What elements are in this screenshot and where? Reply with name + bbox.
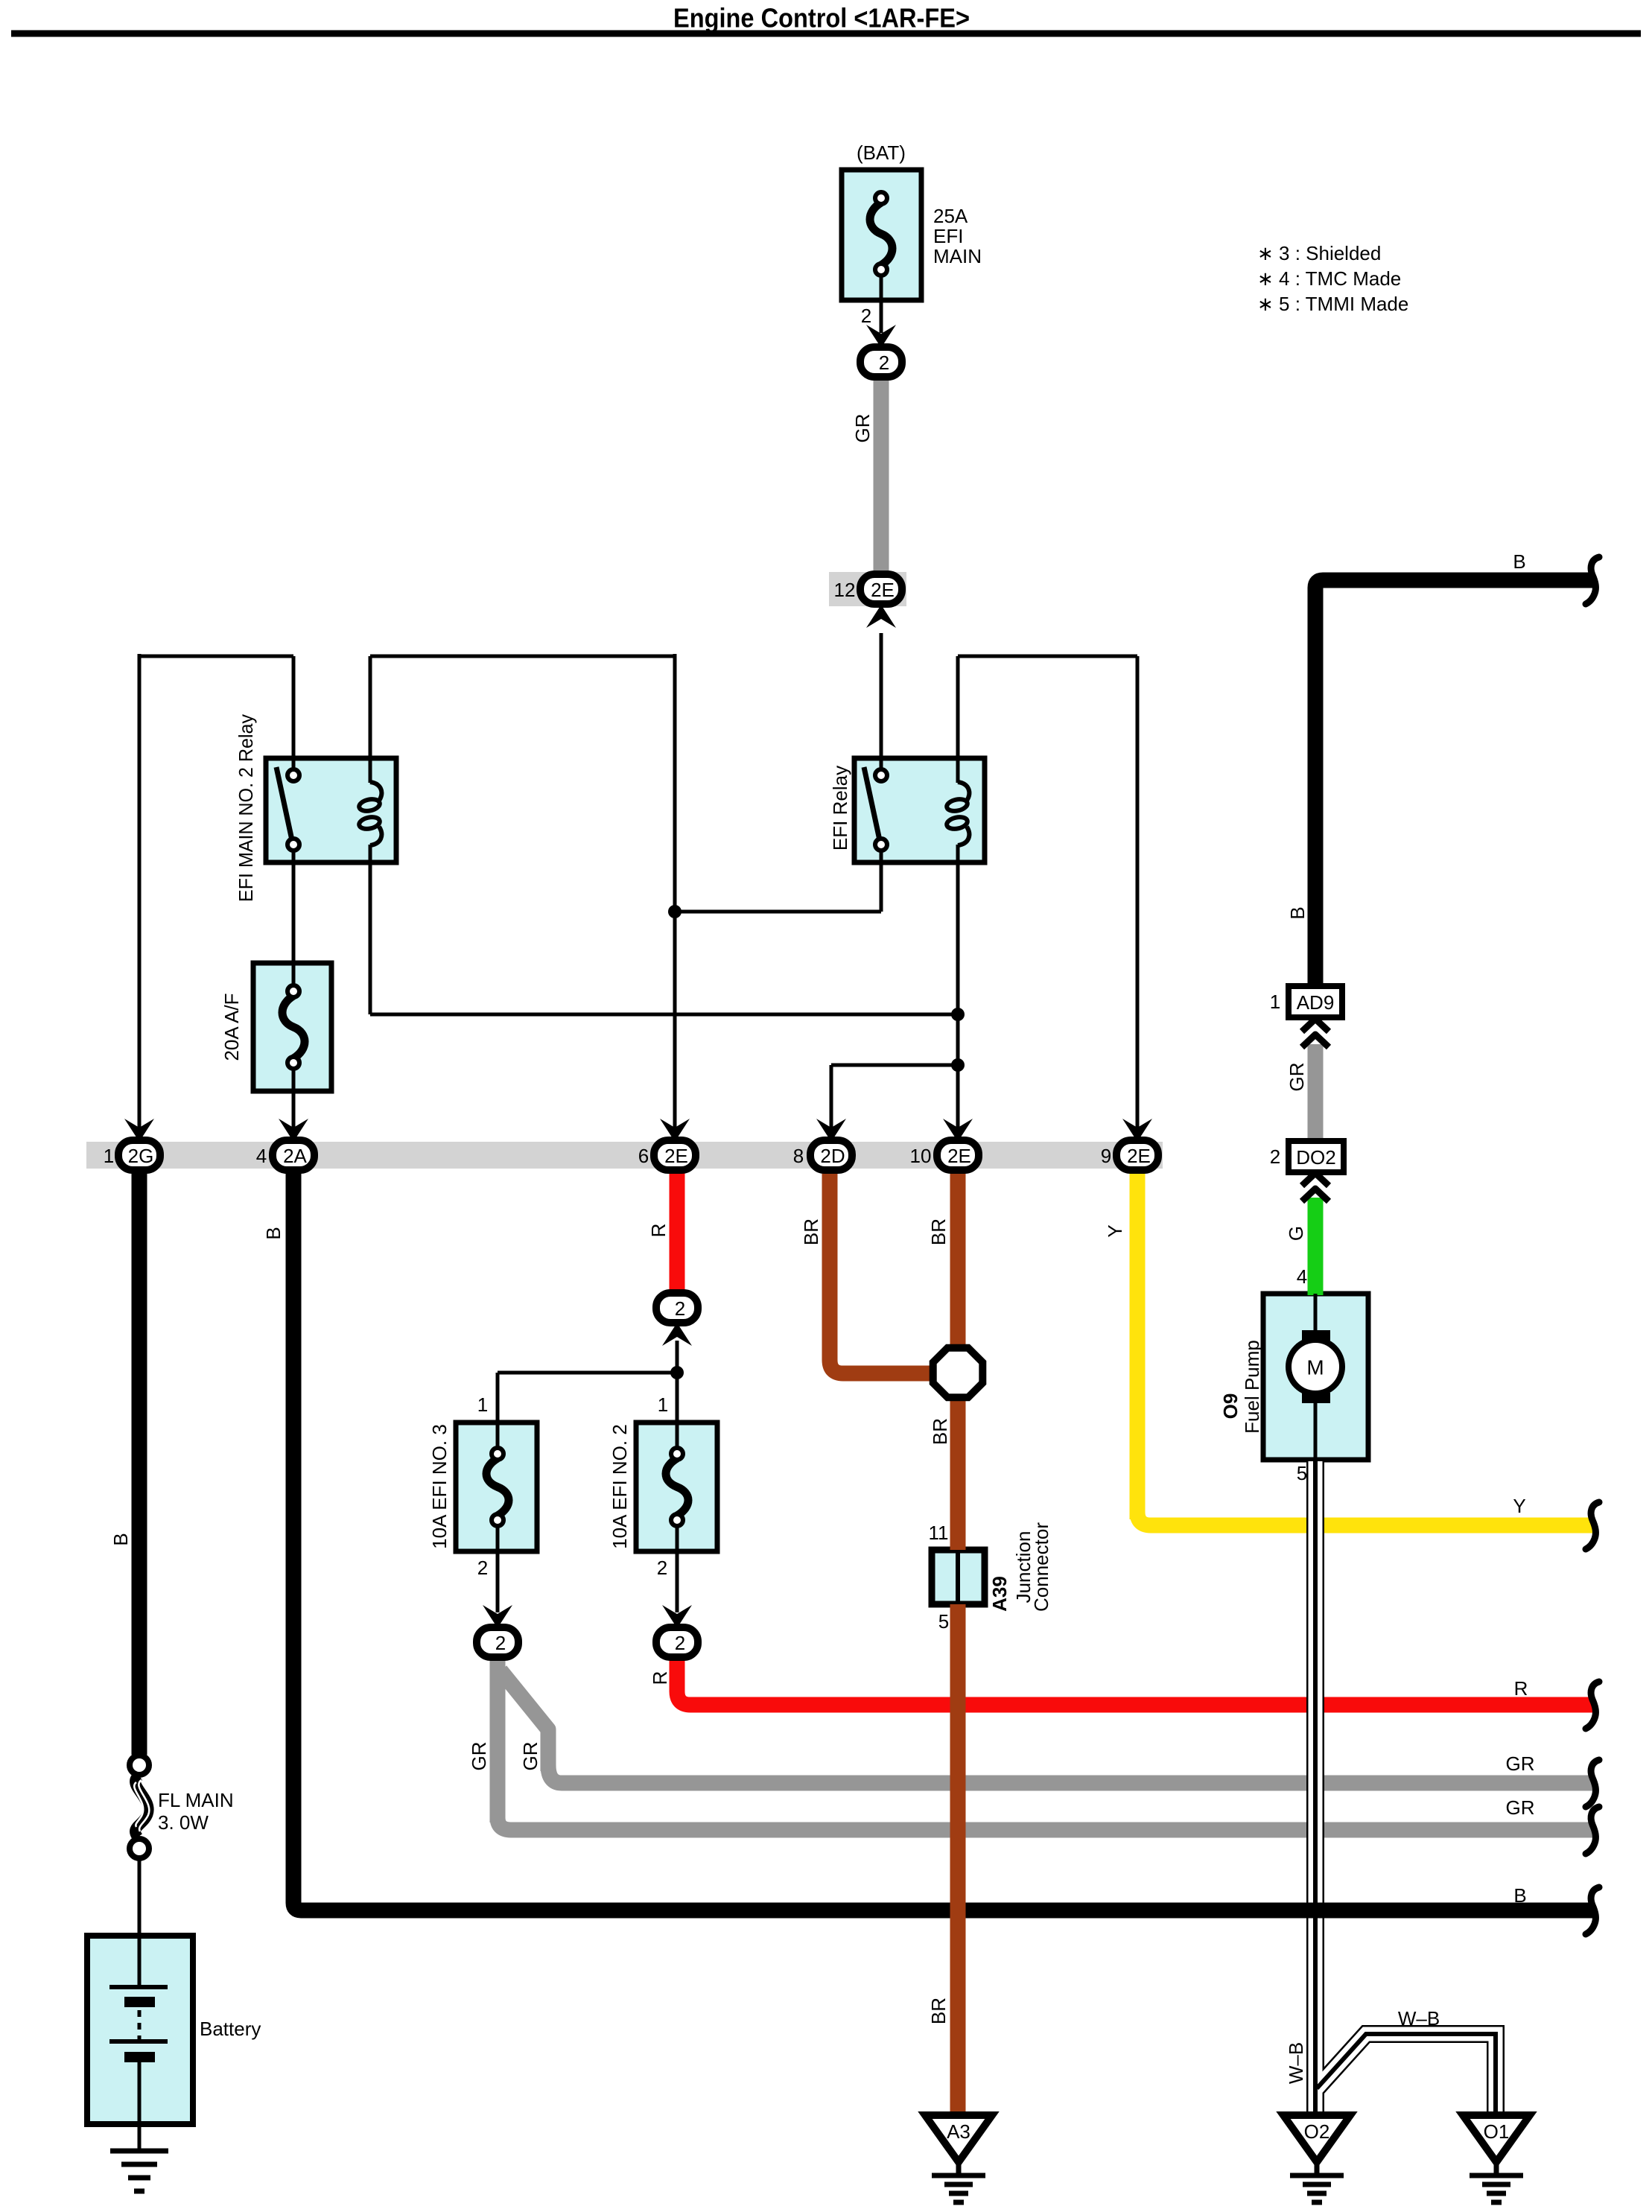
svg-text:1: 1: [1270, 991, 1280, 1013]
svg-text:GR: GR: [1506, 1796, 1535, 1819]
svg-text:GR: GR: [519, 1742, 541, 1771]
svg-text:2: 2: [495, 1632, 506, 1654]
svg-text:2: 2: [675, 1297, 685, 1320]
svg-text:R: R: [647, 1224, 670, 1238]
svg-text:1: 1: [477, 1393, 488, 1416]
svg-text:O2: O2: [1304, 2120, 1330, 2143]
svg-text:25A: 25A: [933, 205, 968, 227]
svg-text:GR: GR: [1286, 1063, 1308, 1092]
svg-text:2G: 2G: [128, 1145, 154, 1167]
svg-text:4: 4: [256, 1145, 267, 1167]
svg-text:10A EFI NO. 2: 10A EFI NO. 2: [609, 1424, 631, 1549]
svg-text:B: B: [1513, 1884, 1526, 1907]
svg-text:2: 2: [657, 1557, 667, 1579]
svg-text:R: R: [649, 1671, 671, 1685]
svg-text:20A A/F: 20A A/F: [220, 993, 243, 1061]
svg-text:B: B: [1513, 550, 1525, 573]
svg-text:10A EFI NO. 3: 10A EFI NO. 3: [428, 1424, 451, 1549]
svg-text:O9: O9: [1219, 1393, 1242, 1420]
svg-text:B: B: [109, 1533, 132, 1545]
svg-text:EFI MAIN NO. 2 Relay: EFI MAIN NO. 2 Relay: [235, 714, 257, 902]
svg-text:M: M: [1306, 1356, 1324, 1379]
svg-text:W–B: W–B: [1398, 2007, 1440, 2030]
svg-text:2: 2: [675, 1632, 685, 1654]
svg-text:2E: 2E: [871, 579, 895, 601]
svg-text:10: 10: [910, 1145, 932, 1167]
svg-text:2: 2: [477, 1557, 488, 1579]
svg-text:5: 5: [1297, 1462, 1307, 1484]
svg-text:B: B: [262, 1227, 285, 1239]
svg-text:EFI: EFI: [933, 225, 963, 247]
svg-text:GR: GR: [468, 1742, 490, 1771]
svg-text:2: 2: [879, 352, 889, 374]
svg-text:EFI Relay: EFI Relay: [829, 766, 851, 851]
svg-text:2A: 2A: [283, 1145, 307, 1167]
svg-text:A3: A3: [947, 2120, 970, 2143]
svg-text:(BAT): (BAT): [857, 142, 906, 164]
svg-text:∗ 4 : TMC Made: ∗ 4 : TMC Made: [1257, 267, 1401, 290]
svg-text:12: 12: [834, 579, 856, 601]
svg-text:∗ 3 : Shielded: ∗ 3 : Shielded: [1257, 242, 1381, 264]
svg-text:1: 1: [104, 1145, 114, 1167]
svg-text:GR: GR: [1506, 1752, 1535, 1775]
svg-text:Battery: Battery: [200, 2018, 261, 2040]
svg-text:Engine Control <1AR-FE>: Engine Control <1AR-FE>: [673, 3, 970, 34]
svg-text:11: 11: [929, 1522, 949, 1544]
svg-text:W–B: W–B: [1285, 2042, 1307, 2084]
svg-text:FL MAIN: FL MAIN: [158, 1789, 234, 1811]
svg-text:8: 8: [793, 1145, 804, 1167]
svg-text:G: G: [1285, 1226, 1307, 1241]
svg-text:2: 2: [1270, 1145, 1280, 1168]
svg-text:2D: 2D: [820, 1145, 845, 1167]
svg-text:B: B: [1286, 906, 1309, 919]
svg-text:Y: Y: [1513, 1495, 1525, 1517]
svg-text:A39: A39: [988, 1576, 1011, 1612]
svg-text:AD9: AD9: [1297, 991, 1335, 1014]
svg-text:O1: O1: [1484, 2120, 1510, 2143]
svg-text:2: 2: [861, 305, 871, 327]
svg-text:3. 0W: 3. 0W: [158, 1811, 209, 1834]
svg-text:2E: 2E: [947, 1145, 971, 1167]
svg-text:9: 9: [1101, 1145, 1111, 1167]
svg-text:BR: BR: [929, 1418, 951, 1445]
svg-text:Fuel Pump: Fuel Pump: [1241, 1340, 1263, 1434]
svg-text:5: 5: [938, 1610, 949, 1633]
svg-text:2E: 2E: [664, 1145, 688, 1167]
svg-text:BR: BR: [927, 1998, 950, 2024]
svg-text:∗ 5 : TMMI Made: ∗ 5 : TMMI Made: [1257, 293, 1408, 315]
svg-text:BR: BR: [927, 1218, 950, 1245]
svg-text:4: 4: [1297, 1265, 1307, 1288]
svg-text:1: 1: [658, 1393, 668, 1416]
svg-text:DO2: DO2: [1296, 1146, 1335, 1169]
svg-text:2E: 2E: [1127, 1145, 1151, 1167]
svg-text:R: R: [1514, 1677, 1528, 1700]
svg-text:GR: GR: [851, 414, 874, 443]
svg-text:Connector: Connector: [1030, 1522, 1052, 1612]
svg-text:BR: BR: [800, 1218, 822, 1245]
svg-text:6: 6: [638, 1145, 649, 1167]
svg-text:MAIN: MAIN: [933, 245, 982, 267]
svg-text:Y: Y: [1104, 1224, 1126, 1237]
